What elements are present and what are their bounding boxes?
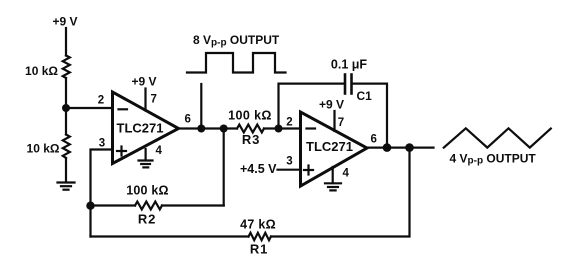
U1 inverting input minus sign xyxy=(119,108,128,110)
svg-text:+4.5 V: +4.5 V xyxy=(240,162,277,176)
svg-text:4: 4 xyxy=(343,168,350,180)
svg-text:7: 7 xyxy=(151,94,157,106)
svg-text:R2: R2 xyxy=(138,212,156,227)
node R2-tap junction dot xyxy=(220,125,228,133)
resistor R3 100k xyxy=(237,125,264,133)
svg-text:4: 4 xyxy=(156,145,163,157)
svg-text:C1: C1 xyxy=(357,89,373,103)
wire C1 feedback left leg xyxy=(279,84,345,129)
wire C1 right leg xyxy=(353,84,388,148)
op-amp U2 TLC271 xyxy=(301,112,368,186)
node C1-tap junction dot xyxy=(275,125,283,133)
svg-text:3: 3 xyxy=(286,156,292,168)
svg-text:6: 6 xyxy=(371,134,377,146)
node A junction dot xyxy=(62,104,70,112)
svg-text:+9 V: +9 V xyxy=(319,98,344,112)
wire R to ground xyxy=(65,158,67,182)
ground (U2 pin 4) xyxy=(325,183,341,190)
wire R3 to U2 pin2 xyxy=(264,127,301,129)
svg-text:R3: R3 xyxy=(242,132,260,147)
svg-text:100 kΩ: 100 kΩ xyxy=(126,184,169,198)
wire node B to R2 xyxy=(91,204,136,206)
svg-text:47 kΩ: 47 kΩ xyxy=(240,218,276,232)
svg-text:0.1 μF: 0.1 μF xyxy=(331,58,367,72)
node square-probe junction dot xyxy=(197,125,205,133)
svg-text:2: 2 xyxy=(98,95,104,107)
wire bottom R1 run xyxy=(91,235,249,237)
U2 inverting input minus sign xyxy=(307,127,316,129)
ground (left rail) xyxy=(58,183,75,190)
svg-text:+9 V: +9 V xyxy=(131,75,156,89)
wire U1 output to R3 xyxy=(179,127,238,129)
wire +9V to R top xyxy=(65,28,67,56)
U2 noninverting input plus sign xyxy=(304,166,313,175)
wire R2 to vertical tap xyxy=(162,204,224,206)
wire +4.5V to U2 pin3 xyxy=(278,169,301,171)
U2 pin 4 ground stem xyxy=(332,167,334,183)
node R1-return junction dot xyxy=(405,143,414,152)
svg-text:4 Vp-p OUTPUT: 4 Vp-p OUTPUT xyxy=(450,151,537,166)
resistor 10k upper xyxy=(63,56,70,79)
svg-text:10 kΩ: 10 kΩ xyxy=(27,142,60,156)
svg-text:TLC271: TLC271 xyxy=(306,139,353,154)
resistor 10k lower xyxy=(63,135,70,159)
svg-text:TLC271: TLC271 xyxy=(117,121,164,136)
U1 pin 7 wire xyxy=(144,89,146,111)
wire U1 pin3 xyxy=(91,150,113,237)
wire R2 vertical tap xyxy=(223,129,225,206)
wire R to node A xyxy=(65,78,67,135)
triangle wave symbol xyxy=(444,128,551,147)
svg-text:10 kΩ: 10 kΩ xyxy=(25,64,58,78)
node B junction dot xyxy=(86,202,94,210)
wire probe to square wave symbol xyxy=(200,84,202,129)
svg-text:2: 2 xyxy=(286,117,292,129)
wire node A to U1 pin2 xyxy=(66,107,113,109)
svg-text:8 Vp-p OUTPUT: 8 Vp-p OUTPUT xyxy=(193,33,280,48)
capacitor C1 plates xyxy=(345,75,352,94)
svg-text:7: 7 xyxy=(338,117,344,129)
resistor R2 100k xyxy=(135,202,162,210)
svg-text:3: 3 xyxy=(99,138,105,150)
svg-text:R1: R1 xyxy=(250,242,268,257)
resistor R1 47k xyxy=(249,233,272,240)
U2 pin 7 wire xyxy=(333,111,335,131)
square wave symbol xyxy=(187,53,286,73)
op-amp U1 TLC271 xyxy=(113,92,179,164)
svg-text:6: 6 xyxy=(185,114,191,126)
U1 pin 4 ground stem xyxy=(145,149,147,160)
wire U2 output xyxy=(367,147,434,149)
svg-text:+9 V: +9 V xyxy=(52,15,77,29)
svg-text:100 kΩ: 100 kΩ xyxy=(228,109,272,123)
U1 noninverting input plus sign xyxy=(117,147,126,156)
node C1-return junction dot xyxy=(383,143,392,152)
ground (U1 pin 4) xyxy=(139,161,153,168)
wire R1 to U2 output tap xyxy=(271,148,410,237)
